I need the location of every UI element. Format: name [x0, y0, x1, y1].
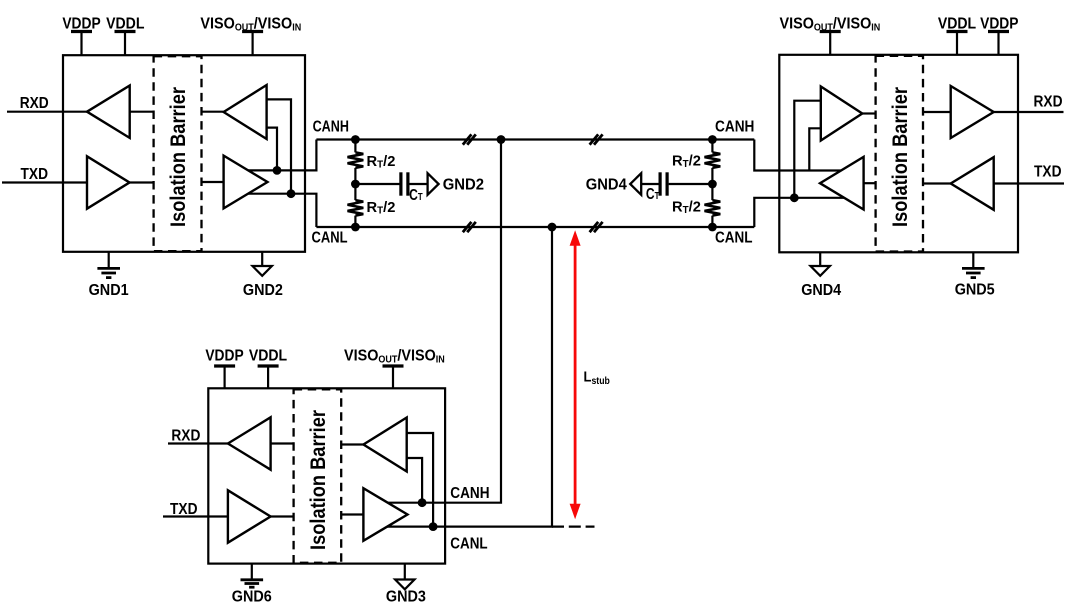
power pin VISO wire	[392, 366, 394, 388]
U1 CANH pin wire with jog to bus	[248, 140, 316, 171]
svg-text:CANL: CANL	[312, 230, 348, 247]
U1 isolation barrier dashed box	[154, 56, 202, 251]
ground GND4 triangle symbol	[811, 266, 830, 276]
ground GND1 pin wire	[108, 252, 110, 268]
capacitor CT (left) label	[409, 186, 423, 204]
U1 RXD buffer output wire to barrier	[130, 111, 154, 113]
power pin VDDP wire	[224, 366, 226, 388]
svg-text:GND4: GND4	[586, 177, 627, 194]
U2 receiver upper input wire to CANL node	[794, 101, 821, 198]
U2 RXD wire	[994, 111, 1064, 113]
left termination wire	[354, 140, 356, 228]
node dot mid right termination	[708, 180, 717, 189]
wire capacitor to GND2 net	[409, 183, 427, 185]
svg-text:GND6: GND6	[232, 589, 272, 606]
U3 bus driver (points right)	[363, 488, 407, 541]
U1 receiver upper input wire to CANL node	[267, 99, 291, 193]
svg-text:CANH: CANH	[313, 119, 349, 136]
U1 TXD buffer output wire to barrier	[130, 181, 154, 183]
CANH bus break mark (right)	[590, 134, 599, 144]
U1 CANL pin wire with jog to bus	[248, 194, 316, 227]
ground GND3 triangle symbol	[395, 580, 414, 590]
svg-text:RXD: RXD	[1034, 94, 1063, 111]
U2 junction dot receiver/CANL	[790, 193, 799, 202]
U2 bus receiver output wire to barrier	[862, 112, 875, 114]
ground GND5 pin wire	[972, 252, 974, 267]
U1 TXD buffer (logic side)	[87, 156, 130, 208]
svg-text:VDDP: VDDP	[205, 347, 244, 364]
U1 junction dot receiver/CANL	[287, 189, 296, 198]
ground GND6 pin wire	[251, 564, 253, 579]
resistor RT/2 upper-right	[705, 152, 721, 168]
U2 TXD buffer (logic side, points left)	[951, 157, 994, 210]
CANL bus break mark (left)	[463, 222, 472, 232]
right termination wire	[711, 140, 713, 228]
label RT/2 upper-left	[367, 154, 396, 171]
power pin VDDP T-bar	[988, 30, 1009, 33]
CANH bus break mark (left)	[463, 134, 472, 144]
resistor RT/2 upper-left	[348, 152, 364, 168]
svg-text:Isolation Barrier: Isolation Barrier	[167, 87, 190, 227]
svg-text:GND4: GND4	[801, 282, 841, 299]
ground GND2 pin wire	[261, 252, 263, 266]
node dot CANL stub junction	[548, 223, 557, 232]
power pin VISO wire	[829, 32, 831, 55]
svg-text:Isolation Barrier: Isolation Barrier	[307, 410, 330, 550]
U1 RXD wire	[7, 111, 87, 113]
U1 junction dot receiver/CANH	[273, 166, 282, 175]
U1 barrier-to-driver wire	[202, 181, 224, 183]
U3 junction dot receiver/CANL	[429, 522, 438, 531]
svg-text:CANH: CANH	[450, 485, 489, 502]
U3 isolation barrier dashed box	[294, 389, 342, 562]
node dot CANL/left termination	[351, 223, 360, 232]
power pin VDDL T-bar	[115, 30, 136, 33]
capacitor CT (right) plates	[665, 172, 668, 195]
wire capacitor to GND4 net	[641, 183, 658, 185]
U3 CANL pin wire and stub up to bus	[387, 227, 552, 527]
svg-text:VDDL: VDDL	[106, 15, 144, 32]
U2 bus driver (points left)	[820, 157, 864, 210]
power pin VISO T-bar	[820, 30, 841, 33]
power pin VDDP T-bar	[214, 364, 235, 367]
svg-text:CANH: CANH	[715, 118, 754, 135]
U1 VISOOUT/VISOIN pin label	[200, 15, 301, 34]
U2 TXD-buffer-to-barrier wire	[923, 182, 951, 184]
capacitor CT (right) wire	[669, 183, 713, 185]
svg-text:VDDP: VDDP	[62, 15, 101, 32]
node dot CANH/right termination	[708, 135, 717, 144]
svg-text:TXD: TXD	[1034, 164, 1062, 181]
svg-text:TXD: TXD	[21, 166, 49, 183]
svg-text:GND2: GND2	[443, 177, 484, 194]
power pin VDDL T-bar	[258, 364, 279, 367]
ground GND3 pin wire	[404, 564, 406, 580]
U3 TXD buffer (logic side)	[228, 490, 271, 542]
Lstub label	[584, 367, 611, 386]
U2 receiver lower input wire to CANH node	[809, 128, 821, 170]
U3 RXD buffer (logic side)	[228, 417, 271, 469]
svg-text:GND2: GND2	[243, 282, 283, 299]
svg-text:RXD: RXD	[171, 428, 200, 445]
svg-text:GND3: GND3	[386, 589, 426, 606]
U2 bus receiver (points right)	[821, 87, 863, 141]
resistor RT/2 lower-right	[705, 200, 721, 216]
U3 barrier-to-driver wire	[341, 513, 363, 515]
svg-text:Isolation Barrier: Isolation Barrier	[889, 87, 912, 227]
transceiver U2 body (right)	[779, 55, 1018, 253]
node dot CANH stub junction	[497, 135, 506, 144]
U2 VISOOUT/VISOIN pin label	[780, 15, 881, 34]
U1 receiver lower input wire to CANH node	[267, 128, 277, 171]
ground GND5 earth symbol	[962, 267, 985, 270]
svg-text:CANL: CANL	[450, 536, 487, 553]
Lstub dimension arrow (red)	[574, 243, 577, 506]
ground GND6 earth symbol	[241, 578, 264, 581]
U3 bus receiver (points left)	[363, 418, 406, 472]
U2 RXD buffer (logic side, points right)	[951, 86, 994, 138]
svg-text:GND1: GND1	[89, 282, 129, 299]
U3 TXD wire	[163, 515, 228, 517]
power pin VISO T-bar	[383, 364, 404, 367]
U2 CANL pin wire with jog to bus	[754, 198, 844, 227]
GND4 net triangle symbol	[630, 173, 641, 195]
CANL bus dashed continuation	[552, 525, 595, 527]
power pin VDDP wire	[80, 32, 82, 56]
node dot CANH/left termination	[351, 135, 360, 144]
power pin VDDL wire	[956, 32, 958, 55]
U1 bus receiver (points left)	[224, 85, 267, 139]
capacitor CT (right) label	[646, 185, 660, 203]
CANH bus wire	[316, 138, 754, 140]
transceiver U1 body (left)	[63, 55, 305, 252]
power pin VDDL wire	[267, 366, 269, 388]
power pin VISO wire	[252, 32, 254, 56]
svg-text:CANL: CANL	[715, 230, 753, 247]
svg-text:GND5: GND5	[955, 282, 995, 299]
power pin VISO T-bar	[242, 30, 263, 33]
U2 barrier-to-RXD-buffer wire	[923, 111, 951, 113]
node dot mid left termination	[351, 180, 360, 189]
label RT/2 upper-right	[672, 153, 701, 170]
ground GND1 earth symbol	[97, 267, 120, 270]
node dot CANL/right termination	[708, 223, 717, 232]
U2 driver-to-barrier wire	[864, 182, 876, 184]
U1 TXD wire	[2, 181, 87, 183]
ground GND4 pin wire	[819, 252, 821, 266]
U3 junction dot receiver/CANH	[418, 498, 427, 507]
U3 RXD wire	[168, 442, 228, 444]
U1 bus driver (points right)	[224, 156, 268, 209]
U3 CANH pin wire and stub up to bus	[388, 140, 501, 503]
label RT/2 lower-left	[367, 200, 396, 217]
U3 receiver lower input wire to CANH node	[407, 458, 422, 503]
U3 VISOOUT/VISOIN pin label	[344, 347, 445, 366]
ground GND2 triangle symbol	[253, 266, 272, 276]
CANL bus break mark (right)	[590, 222, 599, 232]
CANL bus wire	[316, 226, 754, 228]
power pin VDDP wire	[997, 32, 999, 55]
U1 RXD buffer (logic side)	[87, 86, 130, 138]
U1 barrier-to-receiver wire	[202, 111, 224, 113]
U3 RXD buffer output wire to barrier	[271, 442, 294, 444]
U2 TXD wire	[994, 182, 1064, 184]
power pin VDDL T-bar	[947, 30, 968, 33]
capacitor CT (left) plates	[399, 172, 402, 195]
svg-text:RXD: RXD	[20, 95, 49, 112]
power pin VDDL wire	[124, 32, 126, 56]
power pin VDDP T-bar	[71, 30, 92, 33]
svg-text:VDDL: VDDL	[249, 347, 287, 364]
U2 isolation barrier dashed box	[876, 56, 923, 252]
svg-text:VDDL: VDDL	[938, 15, 976, 32]
U3 TXD buffer output wire to barrier	[271, 515, 294, 517]
resistor RT/2 lower-left	[348, 200, 364, 216]
U3 barrier-to-receiver wire	[341, 443, 363, 445]
svg-text:VDDP: VDDP	[980, 15, 1019, 32]
label RT/2 lower-right	[672, 199, 701, 216]
U3 receiver upper input wire to CANL node	[407, 433, 433, 527]
capacitor CT (left) wire	[355, 183, 399, 185]
transceiver U3 body (bottom)	[208, 388, 445, 563]
GND2 net triangle symbol	[428, 173, 439, 195]
U2 CANH pin wire with jog to bus	[754, 140, 841, 171]
